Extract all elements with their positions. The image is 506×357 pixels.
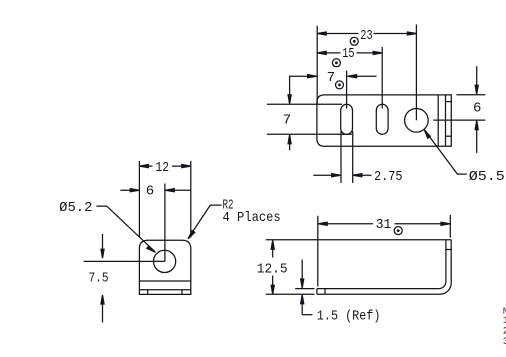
- leader R2: [189, 205, 222, 238]
- front view corner tangent right: [181, 290, 183, 295]
- extension line hole center right (for 6): [433, 119, 485, 121]
- side view inner bend arc: [439, 282, 446, 289]
- svg-text:15: 15: [342, 46, 354, 62]
- dim 15 line: [317, 52, 340, 54]
- dim 12.5 arrows: [272, 241, 274, 258]
- leader dia 5.2: [96, 206, 154, 252]
- symbol circle-dot for 7: [336, 81, 344, 89]
- dim 6 front arrows: [120, 189, 138, 191]
- svg-text:7: 7: [283, 113, 291, 129]
- extension line left edge (for 23,15,7): [316, 26, 318, 104]
- symbol circle-dot for 31: [394, 227, 402, 235]
- top view bend tangent line 1: [437, 95, 439, 146]
- dim 2.75 arrows: [313, 174, 340, 176]
- svg-text:6: 6: [146, 184, 154, 200]
- extension line slot bottom tangent (for vertical 7): [267, 133, 352, 135]
- side view top edge + ext (12.5): [266, 239, 451, 241]
- svg-text:12.5: 12.5: [257, 261, 288, 277]
- svg-text:31: 31: [376, 217, 392, 233]
- side view leg outer surface: [317, 293, 440, 295]
- front view horizontal centerline (7.5 ext): [84, 260, 165, 262]
- svg-text:23: 23: [360, 28, 372, 44]
- side view flange corner tangent: [446, 249, 451, 251]
- svg-text:1.5 (Ref): 1.5 (Ref): [317, 309, 381, 325]
- extension line slot1 center (for 7): [346, 71, 348, 109]
- dim 23 line: [317, 33, 358, 35]
- svg-text:7.5: 7.5: [88, 270, 108, 286]
- front view bend line 2: [139, 289, 190, 291]
- dim 1.5 top arrow: [301, 260, 303, 288]
- side view leg inner surface: [317, 288, 439, 290]
- dim 6 top-right arrows: [476, 66, 478, 93]
- svg-text:2.75: 2.75: [374, 169, 402, 185]
- front view vertical centerline: [164, 184, 166, 262]
- front view bend line 1: [139, 280, 190, 282]
- extension line part top edge right (for 6): [456, 94, 485, 96]
- side view left end face: [316, 289, 318, 295]
- dim 7 horizontal bent arrow piece: [290, 76, 316, 103]
- extension line front left edge (for 12): [138, 161, 140, 238]
- front view hole dia 5.2: [154, 250, 176, 272]
- dim 7.5 arrows: [102, 234, 104, 257]
- extension line slot1 right edge (for 2.75): [352, 131, 354, 183]
- extension line front right edge (for 12): [190, 161, 192, 238]
- dim 7 vertical bottom arrow: [289, 135, 291, 150]
- side view flange outer face: [450, 240, 452, 283]
- front view corner tangent left: [147, 290, 149, 295]
- symbol circle-dot for 23: [350, 37, 358, 45]
- svg-text:Ø5.2: Ø5.2: [59, 200, 92, 216]
- symbol circle-dot for 15: [332, 59, 340, 67]
- top view slot 2: [376, 104, 388, 134]
- front view part outline: [139, 240, 190, 294]
- extension line leg left end (for 31): [317, 216, 319, 287]
- dim 12 line: [139, 165, 152, 167]
- svg-text:Ø5.5: Ø5.5: [469, 169, 505, 185]
- extension line leg top surface left (for 1.5): [295, 288, 314, 290]
- top view hole dia 5.5: [405, 109, 429, 133]
- dim 1.5 bottom arrow with elbow: [301, 295, 303, 314]
- side view end corner tangent: [324, 289, 326, 295]
- extension line slot1 left edge (for 2.75): [340, 131, 342, 183]
- svg-text:12: 12: [155, 160, 169, 176]
- top view flange corner tangent top: [446, 101, 452, 103]
- svg-text:7: 7: [327, 70, 335, 86]
- top view bend tangent line 2: [445, 95, 447, 146]
- extension/center line hole (for 23): [415, 25, 417, 121]
- svg-text:6: 6: [473, 100, 481, 116]
- extension line flange right (for 31): [449, 215, 451, 238]
- side view outer bend arc: [440, 283, 451, 294]
- extension line leg bottom left (for 12.5): [266, 293, 315, 295]
- top view slot 1: [341, 104, 353, 134]
- dim 31 line: [318, 223, 373, 225]
- top view part outline: [317, 95, 451, 146]
- top view flange corner tangent bottom: [446, 135, 452, 137]
- side view flange inner face: [445, 240, 447, 282]
- svg-text:4 Places: 4 Places: [223, 210, 281, 226]
- leader dia 5.5: [425, 131, 467, 175]
- extension line slot2 center (for 15): [381, 47, 383, 109]
- extension line slot top tangent (for vertical 7): [267, 103, 342, 105]
- dim 7 horizontal right piece: [348, 75, 376, 77]
